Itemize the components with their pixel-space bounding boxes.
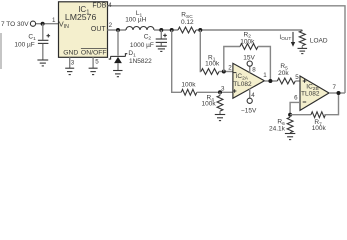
- svg-text:LM2576: LM2576: [65, 12, 97, 22]
- node sense tap: [170, 28, 174, 32]
- op-amp U2A TL082: [233, 63, 265, 98]
- node R6 tap: [288, 113, 292, 117]
- IC U1 LM2576 body: [59, 2, 108, 58]
- svg-text:5: 5: [295, 74, 299, 81]
- svg-text:15V: 15V: [243, 55, 255, 62]
- ground (C2): [156, 46, 167, 51]
- svg-text:8: 8: [252, 67, 256, 74]
- svg-text:3: 3: [71, 59, 75, 66]
- svg-text:2: 2: [228, 64, 232, 71]
- label plus A: [233, 89, 237, 93]
- terminal input 7-30V: [30, 21, 35, 26]
- wire RSC to LOAD: [196, 29, 302, 31]
- wire R6 node to R7: [290, 114, 311, 116]
- svg-text:1N5822: 1N5822: [129, 58, 152, 65]
- svg-text:6: 6: [294, 95, 298, 102]
- wire FDB pin 4 to right edge and down to IC2B output: [108, 6, 346, 93]
- wire RSC node down to R1: [199, 30, 202, 72]
- svg-text:20k: 20k: [278, 70, 289, 77]
- resistor R5 20k: [277, 78, 295, 84]
- wire LOAD drop: [301, 29, 303, 32]
- capacitor C2 1000uF: [156, 30, 167, 46]
- svg-text:100k: 100k: [181, 82, 196, 89]
- svg-text:TL082: TL082: [233, 81, 252, 88]
- wire pin 6: [290, 102, 300, 114]
- label minus A: [233, 72, 237, 74]
- scan streak left edge: [0, 33, 2, 69]
- node R2 left tap: [222, 70, 226, 74]
- resistor R1 100k: [201, 69, 219, 75]
- label plus B: [303, 79, 307, 83]
- wire input to IC1: [36, 23, 59, 25]
- node RSC right: [198, 28, 202, 32]
- op-amp U2B TL082: [300, 76, 329, 110]
- wire R1 to pin 2: [219, 71, 233, 73]
- svg-text:100k: 100k: [202, 100, 217, 107]
- node output B: [337, 91, 341, 95]
- ground (pin 5): [89, 68, 98, 74]
- pin 3 stub: [69, 57, 71, 68]
- diode D1 1N5822: [109, 54, 128, 70]
- inductor L1 100uH: [126, 27, 154, 30]
- capacitor C1: [38, 24, 50, 60]
- ground (LOAD): [298, 48, 308, 53]
- svg-text:100k: 100k: [240, 38, 255, 45]
- wire OUT pin 2 to L1: [108, 29, 127, 31]
- resistor R2 100k: [240, 44, 258, 50]
- resistor R3 100k: [181, 89, 197, 95]
- wire R2 left riser: [224, 47, 240, 72]
- svg-text:LOAD: LOAD: [310, 37, 328, 44]
- resistor R7 100k: [311, 112, 325, 118]
- node C1 tap: [41, 22, 45, 26]
- svg-text:1000 µF: 1000 µF: [130, 42, 154, 49]
- node D1 tap: [116, 28, 120, 32]
- svg-text:100k: 100k: [312, 125, 327, 132]
- wire R2 right riser to output node: [258, 47, 270, 82]
- wire R7 to output B riser: [324, 93, 338, 115]
- svg-text:4: 4: [108, 2, 112, 9]
- svg-text:7: 7: [333, 84, 337, 91]
- ground (pin 3): [65, 68, 74, 74]
- svg-text:4: 4: [251, 92, 255, 99]
- arrow IOUT: [291, 32, 295, 47]
- pin 8 stub: [249, 66, 251, 72]
- wire D1 cathode drop: [117, 30, 119, 56]
- svg-text:7 TO 30V: 7 TO 30V: [1, 21, 29, 28]
- svg-text:TL082: TL082: [301, 91, 320, 98]
- svg-text:100 µH: 100 µH: [125, 17, 146, 24]
- wire R5 to pin 5: [295, 80, 300, 82]
- ground (R6): [285, 134, 295, 140]
- pin 5 stub: [92, 57, 94, 68]
- resistor R4 100k vertical: [217, 92, 223, 114]
- svg-text:5: 5: [95, 59, 99, 66]
- svg-text:1: 1: [263, 72, 267, 79]
- svg-text:3: 3: [221, 86, 225, 93]
- svg-text:24.1k: 24.1k: [269, 125, 286, 132]
- node output A: [268, 79, 272, 83]
- svg-text:100 µF: 100 µF: [14, 41, 34, 48]
- wire output B: [329, 92, 345, 94]
- ground (D1): [113, 71, 122, 77]
- ground (C1): [37, 60, 48, 66]
- pin 4 stub: [249, 88, 251, 98]
- svg-text:100k: 100k: [205, 60, 220, 67]
- node C2 tap: [159, 28, 163, 32]
- overline ON/OFF: [81, 48, 107, 50]
- wire L1 to RSC: [154, 29, 178, 31]
- resistor R6 24.1k vertical: [287, 117, 293, 133]
- ground (R4): [215, 115, 225, 121]
- svg-text:1: 1: [52, 17, 56, 24]
- wire sense tap down to 100k (R3 row): [172, 30, 182, 92]
- svg-text:ON/OFF: ON/OFF: [81, 50, 107, 57]
- label minus B: [303, 101, 307, 103]
- svg-text:GND: GND: [63, 50, 78, 57]
- resistor LOAD vertical: [299, 31, 305, 48]
- terminal 15V: [247, 61, 252, 66]
- resistor RSC 0.12: [178, 27, 196, 33]
- svg-text:2: 2: [109, 22, 113, 29]
- wire output A to R5: [264, 80, 277, 82]
- svg-text:FDB: FDB: [92, 3, 106, 10]
- svg-text:−15V: −15V: [241, 107, 257, 114]
- node R4 tap: [218, 90, 222, 94]
- svg-text:OUT: OUT: [91, 26, 107, 33]
- svg-text:0.12: 0.12: [181, 19, 194, 26]
- terminal -15V: [247, 98, 252, 103]
- wire R3 to pin 3: [197, 91, 233, 93]
